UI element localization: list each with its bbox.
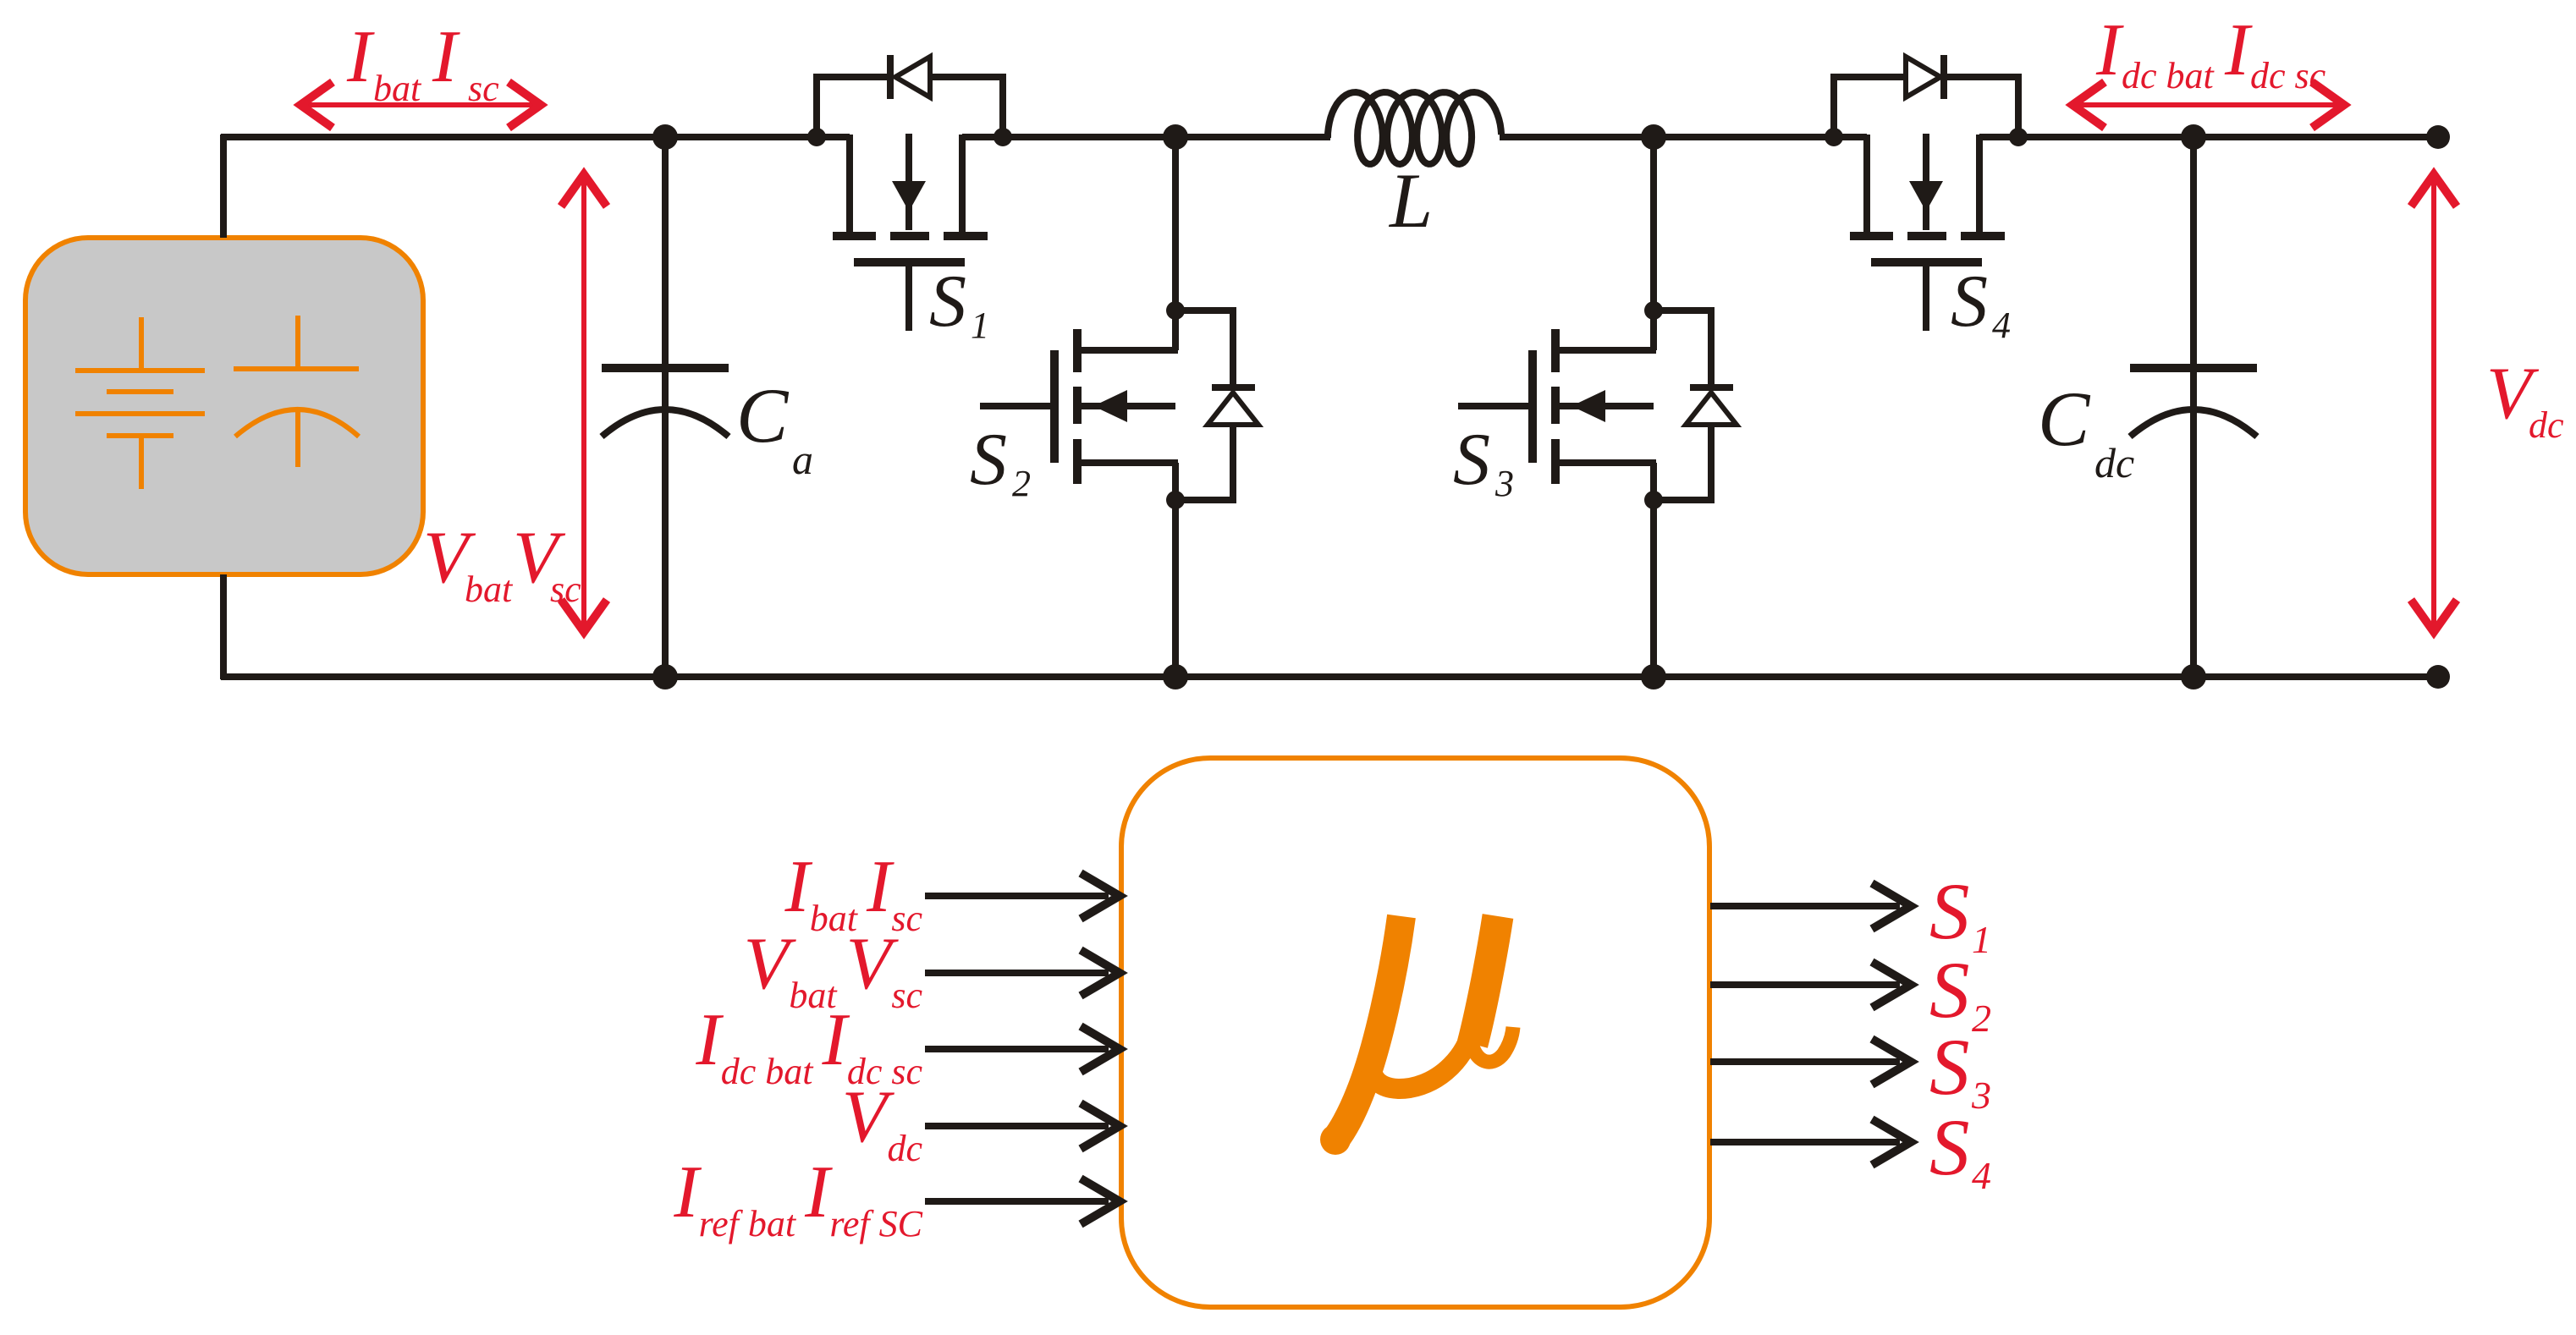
node dot D4 right: [2009, 128, 2028, 146]
wire top rail mid2: [1500, 134, 1867, 140]
node dot S2 bottom rail: [1163, 664, 1188, 689]
output arrow S4: [1710, 1119, 1911, 1165]
svg-text:2: 2: [1972, 997, 1991, 1040]
node dot D4 left: [1825, 128, 1843, 146]
wire top rail mid1: [962, 134, 1330, 140]
svg-text:I: I: [346, 16, 375, 98]
svg-text:4: 4: [1992, 305, 2011, 346]
output arrow S2: [1710, 962, 1911, 1008]
MOSFET S3: [1458, 137, 1656, 677]
node dot Cdc bottom: [2181, 664, 2206, 689]
label V_bat V_sc: [423, 517, 581, 610]
svg-text:dc sc: dc sc: [2250, 55, 2326, 96]
svg-text:3: 3: [1971, 1074, 1991, 1117]
svg-text:S: S: [1951, 261, 1988, 343]
node dot D2 bottom: [1166, 491, 1185, 509]
node dot Ca top: [652, 124, 678, 150]
label I_dc bat I_dc sc: [2095, 9, 2326, 96]
svg-text:S: S: [1929, 1022, 1970, 1112]
microcontroller block: [1121, 758, 1709, 1307]
svg-text:I: I: [2095, 9, 2124, 91]
node dot D1 left: [807, 128, 826, 146]
node dot D3 bottom: [1644, 491, 1663, 509]
svg-text:C: C: [736, 372, 790, 459]
svg-text:dc: dc: [2094, 439, 2134, 486]
body diode D2: [1175, 310, 1258, 500]
svg-text:S: S: [970, 419, 1007, 501]
mu symbol: [1335, 916, 1513, 1140]
svg-text:I: I: [2224, 9, 2253, 91]
node dot D3 top: [1644, 301, 1663, 320]
svg-text:2: 2: [1012, 463, 1031, 504]
svg-text:C: C: [2038, 376, 2091, 462]
svg-text:4: 4: [1972, 1154, 1991, 1197]
node dot S2 top: [1163, 124, 1188, 150]
svg-text:L: L: [1388, 157, 1433, 244]
label I_bat I_sc: [346, 16, 499, 109]
current arrow I_dc bat I_dc sc: [2072, 82, 2344, 128]
svg-text:S: S: [929, 261, 966, 343]
node dot S3 bottom rail: [1641, 664, 1666, 689]
svg-text:I: I: [432, 16, 460, 98]
wire top rail right: [1979, 134, 2438, 140]
MOSFET S1: [833, 134, 988, 331]
svg-text:dc: dc: [2529, 404, 2564, 446]
MOSFET S2: [980, 137, 1178, 677]
inductor L: [1328, 92, 1501, 164]
diode D1: [817, 55, 1003, 137]
svg-text:S: S: [1929, 1102, 1970, 1192]
input arrow 4: [925, 1103, 1120, 1149]
wire bottom rail: [221, 673, 2438, 680]
capacitor Ca: [602, 137, 729, 677]
battery/supercapacitor source box: [25, 238, 423, 574]
voltage arrow V_bat V_sc: [561, 174, 607, 632]
output arrow S1: [1710, 883, 1911, 929]
wire top rail left: [221, 134, 850, 140]
battery symbol: [75, 317, 205, 489]
node dot output bottom: [2426, 665, 2450, 689]
label V_dc: [2486, 353, 2564, 446]
output arrow S3: [1710, 1039, 1911, 1085]
voltage arrow V_dc: [2411, 174, 2457, 632]
current arrow I_bat I_sc: [300, 82, 541, 128]
svg-text:S: S: [1929, 866, 1970, 956]
svg-text:1: 1: [971, 305, 989, 346]
svg-text:a: a: [792, 436, 813, 483]
supercapacitor symbol: [234, 316, 359, 467]
wire battery bottom: [220, 574, 227, 679]
capacitor Cdc: [2130, 137, 2257, 677]
wire battery top: [220, 135, 227, 238]
input arrow 2: [925, 950, 1120, 996]
input arrow 5: [925, 1178, 1120, 1224]
node dot S3 top: [1641, 124, 1666, 150]
svg-text:1: 1: [1972, 918, 1991, 961]
svg-text:3: 3: [1494, 463, 1514, 504]
node dot Cdc top: [2181, 124, 2206, 150]
svg-text:dc bat: dc bat: [2122, 55, 2215, 96]
MOSFET S4: [1850, 134, 2005, 331]
svg-text:sc: sc: [550, 569, 581, 610]
svg-text:S: S: [1453, 419, 1490, 501]
svg-text:bat: bat: [465, 569, 514, 610]
node dot Ca bottom: [652, 664, 678, 689]
node dot D2 top: [1166, 301, 1185, 320]
node dot output top: [2426, 125, 2450, 149]
diode D4: [1834, 55, 2018, 137]
input arrow 1: [925, 873, 1120, 919]
body diode D3: [1654, 310, 1737, 500]
input arrow 3: [925, 1026, 1120, 1072]
node dot D1 right: [994, 128, 1012, 146]
